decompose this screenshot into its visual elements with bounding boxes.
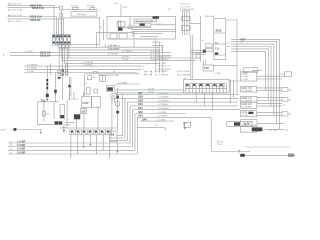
pump inner resistor (43, 102, 51, 121)
connector X1 pins (top) (59, 7, 62, 18)
long vertical node 30 (199, 16, 201, 62)
module B parts (85, 75, 105, 85)
bus mid labels (108, 48, 120, 55)
svg-text:S40: S40 (138, 102, 143, 106)
svg-text:0.5 BR/GE: 0.5 BR/GE (108, 54, 119, 56)
svg-text:0.35 GR/BL: 0.35 GR/BL (108, 48, 120, 50)
motor cluster verticals (68, 92, 83, 100)
small pin boxes left of column (191, 40, 231, 54)
vertical drops from buses (46, 66, 48, 92)
bus B6 (62, 58, 196, 61)
svg-text:17 0.5 LI 2.5: 17 0.5 LI 2.5 (158, 66, 170, 68)
right cluster wires T-top (181, 11, 190, 35)
svg-text:0.5 GE: 0.5 GE (148, 88, 155, 90)
svg-text:S132 2A: S132 2A (40, 53, 51, 57)
svg-text:30 30 15 X: 30 30 15 X (180, 4, 191, 6)
svg-text:0.5 BR: 0.5 BR (242, 79, 249, 81)
svg-text:V147: V147 (82, 101, 89, 105)
wire W1 top-left feed (8, 3, 54, 8)
svg-text:23 0.5 GE/SW: 23 0.5 GE/SW (155, 74, 168, 76)
svg-text:24 0.5 RT/GE: 24 0.5 RT/GE (177, 71, 190, 73)
svg-text:F220: F220 (242, 73, 248, 76)
M1 inner pins (117, 17, 133, 31)
ground bar top-left bottom (12, 128, 42, 134)
svg-text:0.35 BR: 0.35 BR (25, 51, 33, 53)
wire E1 (8, 139, 130, 143)
svg-text:0.5 SW/RT: 0.5 SW/RT (158, 116, 169, 118)
svg-text:SB22 40A: SB22 40A (205, 15, 215, 18)
svg-text:0.5 SW/BL: 0.5 SW/BL (27, 68, 38, 70)
left tall connector box (60, 105, 65, 119)
harness wire S4 (130, 102, 238, 143)
connector pins row2 (182, 26, 191, 31)
svg-text:S41: S41 (138, 106, 143, 110)
svg-text:0.5 SW/GR: 0.5 SW/GR (158, 108, 169, 110)
svg-text:0.5 SW: 0.5 SW (158, 119, 165, 121)
module M1 box (107, 17, 176, 40)
svg-text:0.5 BR: 0.5 BR (214, 73, 221, 75)
svg-text:0.5 SW/LI: 0.5 SW/LI (269, 130, 279, 132)
bus corner L5 (231, 49, 268, 101)
relay column box (214, 19, 226, 60)
switch row R3 (241, 96, 293, 102)
M1 sub box (134, 23, 163, 26)
harness wire S2 (115, 95, 238, 138)
junction boxes JA JB (82, 97, 101, 108)
svg-text:S38: S38 (138, 95, 143, 99)
bus corner L3 (231, 44, 274, 115)
svg-text:0.5 SW/GN: 0.5 SW/GN (158, 100, 169, 102)
panel feeder drops (196, 93, 212, 110)
bus corner L2 (231, 42, 277, 124)
wire fuse feed (63, 8, 97, 10)
fuse S5 mid (145, 70, 169, 73)
module B lower cells (86, 88, 97, 94)
bus corner L6 (231, 51, 265, 90)
svg-text:S42: S42 (138, 110, 143, 114)
bottom ground rail (240, 154, 296, 157)
module top label (99, 44, 119, 77)
faint mid rail (245, 146, 290, 148)
wire verticals W1,W3 drop (54, 5, 62, 39)
wire E2 (8, 143, 133, 147)
svg-text:2.5 BR: 2.5 BR (17, 147, 25, 151)
wire W2 top-left feed (8, 6, 60, 12)
svg-text:M: M (112, 95, 114, 98)
svg-text:S39: S39 (138, 98, 143, 102)
svg-text:0.5 SW/LI: 0.5 SW/LI (158, 112, 168, 114)
bottom collector wire (211, 150, 250, 153)
wire joining to relay column (189, 22, 201, 24)
wires mid right (115, 88, 183, 93)
svg-text:Steuergeraet J285: Steuergeraet J285 (136, 19, 154, 22)
cluster vertical drops (67, 98, 112, 130)
svg-text:T40: T40 (204, 66, 209, 70)
svg-text:S203 10A: S203 10A (32, 6, 44, 10)
harness wire S5 (133, 106, 241, 147)
switch row R5 (241, 111, 293, 118)
fuse panel cell box (183, 80, 229, 94)
sensor G1 box (110, 131, 119, 153)
svg-text:A21 30 2.5 SW: A21 30 2.5 SW (8, 9, 22, 12)
M1 inner wires (120, 25, 176, 34)
bus corner L1 (231, 39, 279, 129)
connector pins row1 (182, 17, 191, 21)
fan-out to left lines (110, 136, 128, 141)
switch row R2 (241, 87, 293, 93)
svg-text:14 0.5 GN/SW Schalter: 14 0.5 GN/SW Schalter (150, 55, 172, 58)
wire E3 (8, 147, 135, 151)
svg-text:0.5 SW/BL: 0.5 SW/BL (242, 107, 253, 109)
control module B box (85, 72, 140, 96)
harness wire S8 (140, 117, 174, 121)
svg-text:c: c (3, 52, 4, 54)
vertical drop 2 (49, 63, 51, 75)
switch row R0 (240, 68, 292, 77)
svg-text:0.5 SW: 0.5 SW (27, 71, 34, 73)
wire W4 top-left feed (8, 18, 62, 23)
connector row X2 (52, 35, 70, 59)
wire drop to connector (59, 10, 64, 21)
harness wire S7 (138, 114, 212, 154)
sensor tick bottom (218, 140, 224, 146)
bus B3 (3, 51, 171, 55)
svg-text:F18: F18 (215, 48, 220, 51)
pump connector blobs (55, 121, 63, 124)
inline connector column (58, 48, 71, 100)
switch row R1 (241, 72, 286, 81)
switch row R4 (241, 102, 286, 108)
label plate on M1 (153, 16, 160, 18)
svg-text:A11 X 1.5 GE: A11 X 1.5 GE (8, 20, 21, 23)
svg-text:0.5 GN: 0.5 GN (122, 56, 129, 58)
svg-text:0.5 GR/WS: 0.5 GR/WS (83, 62, 94, 64)
bus B1 (59, 46, 163, 50)
bus B7 (65, 62, 168, 65)
svg-text:A32 30 2.5 RT: A32 30 2.5 RT (8, 3, 22, 6)
M1 title strip (134, 19, 157, 22)
svg-text:12 0.5 WS: 12 0.5 WS (150, 51, 160, 53)
svg-text:N24: N24 (81, 110, 86, 113)
svg-text:1.5 BR: 1.5 BR (17, 139, 25, 143)
svg-text:0.5 SW/GE: 0.5 SW/GE (242, 91, 253, 93)
pump module box (38, 102, 71, 125)
svg-text:2.5 BR: 2.5 BR (17, 150, 25, 154)
wire verticals below connectors (59, 48, 67, 73)
svg-text:E87: E87 (241, 37, 246, 41)
switch row R6 (241, 120, 284, 126)
wire inner drop (60, 21, 62, 40)
svg-text:S228 5A: S228 5A (30, 18, 41, 22)
harness wire S1 (115, 91, 238, 136)
verticals right edge of panel (228, 41, 240, 103)
bus B10 (25, 71, 137, 74)
motor M symbol (111, 93, 118, 103)
pump inner wire (53, 102, 55, 119)
relay K3 box (107, 85, 115, 91)
svg-text:0.5 GE/BL: 0.5 GE/BL (118, 82, 128, 84)
strip vertical drops (71, 135, 110, 158)
svg-text:J59 Relais: J59 Relais (77, 14, 87, 16)
node text left of module (99, 10, 104, 41)
bus B9 (25, 68, 172, 72)
wire E4 (8, 150, 138, 154)
harness wire S6 (135, 110, 186, 151)
bus corner labels (241, 37, 246, 44)
svg-text:13 0.5 GE: 13 0.5 GE (150, 54, 160, 56)
fuse F2 (87, 5, 95, 10)
A2 cells (110, 33, 158, 39)
net labels above cluster (180, 4, 195, 12)
relay column label (205, 15, 215, 18)
svg-text:A16 15 1.5 GN: A16 15 1.5 GN (8, 14, 22, 17)
svg-text:F23 5A: F23 5A (71, 5, 78, 8)
svg-text:0.5 SW/GE: 0.5 SW/GE (158, 97, 169, 99)
svg-text:0.35 GR: 0.35 GR (108, 45, 116, 47)
svg-text:F223 0.5: F223 0.5 (242, 103, 252, 106)
wire pair down to fuse panel (191, 35, 193, 80)
bus B5 (62, 55, 196, 58)
svg-text:1.5 BR: 1.5 BR (17, 143, 25, 147)
junction box J-top (203, 65, 237, 75)
svg-text:2.5 2.5 4.0: 2.5 2.5 4.0 (180, 6, 191, 8)
bus B2 (59, 48, 163, 52)
svg-text:B167: B167 (1, 130, 7, 132)
svg-text:15 0.5 BL/RT Geber: 15 0.5 BL/RT Geber (150, 58, 169, 61)
relay labels (215, 29, 222, 55)
wire top of relay column (226, 20, 237, 39)
top small text (168, 8, 172, 10)
feed drop to M1 (114, 3, 128, 17)
wire W3 top-left feed (8, 14, 57, 19)
svg-text:25 0.5 BR/WS: 25 0.5 BR/WS (177, 74, 191, 76)
svg-text:0.5 SW/RO: 0.5 SW/RO (122, 51, 133, 53)
sensor G1 vertical (116, 88, 119, 131)
connector row X3 (58, 44, 69, 48)
svg-text:0.5 BL: 0.5 BL (122, 59, 129, 61)
svg-text:S44: S44 (142, 117, 147, 121)
vertical drop 3 with mark (54, 73, 57, 102)
svg-text:0.5 BL: 0.5 BL (148, 91, 155, 93)
connector box bottom-right (227, 122, 252, 127)
module A1 box (64, 18, 100, 45)
cluster wires (60, 122, 117, 128)
small box left bottom (184, 122, 191, 127)
resistor block (80, 109, 86, 114)
bus bar (38, 101, 60, 103)
component under cluster (196, 53, 200, 58)
fuse F1 (71, 5, 78, 10)
svg-text:0.5 SW/GE: 0.5 SW/GE (27, 64, 38, 66)
vertical feeders above panel (203, 60, 206, 66)
switch row R7 lamp (241, 127, 289, 133)
wire from K3 (114, 82, 140, 84)
ground symbol GND1 (62, 127, 65, 133)
svg-text:S43: S43 (138, 114, 143, 118)
fuse cells (184, 78, 227, 93)
label rows right of buses (177, 71, 191, 76)
dark relay block (74, 114, 80, 119)
bus B8 (25, 64, 171, 68)
svg-text:22 0.5 GN/RT: 22 0.5 GN/RT (155, 71, 169, 73)
pump fuse F-P (41, 92, 49, 102)
svg-text:1 2 3 4 5 6 7 8 9 101112: 1 2 3 4 5 6 7 8 9 101112 (186, 85, 226, 88)
svg-text:0.5 SW/BL: 0.5 SW/BL (158, 104, 169, 106)
connector strip cells (70, 130, 112, 135)
bus B4 (3, 53, 171, 57)
svg-text:0.5 GR/BL: 0.5 GR/BL (83, 65, 94, 67)
ground bar label (1, 130, 7, 132)
svg-text:0.5 GR: 0.5 GR (242, 115, 249, 117)
svg-text:0.5 SW: 0.5 SW (242, 76, 249, 78)
wires exiting M1 bottom (136, 39, 163, 73)
svg-text:F9 10A: F9 10A (87, 5, 94, 8)
relay K1 box (71, 12, 97, 17)
antenna wire with hook (137, 125, 166, 131)
ground symbol GND2 (183, 123, 190, 130)
bus corner L4 (231, 47, 271, 107)
module A2 box lower (97, 33, 135, 48)
svg-text:J519: J519 (215, 29, 221, 33)
svg-text:S225 15A: S225 15A (30, 15, 42, 19)
harness wire S3 (128, 98, 239, 140)
fuse S6 mid (145, 74, 168, 77)
